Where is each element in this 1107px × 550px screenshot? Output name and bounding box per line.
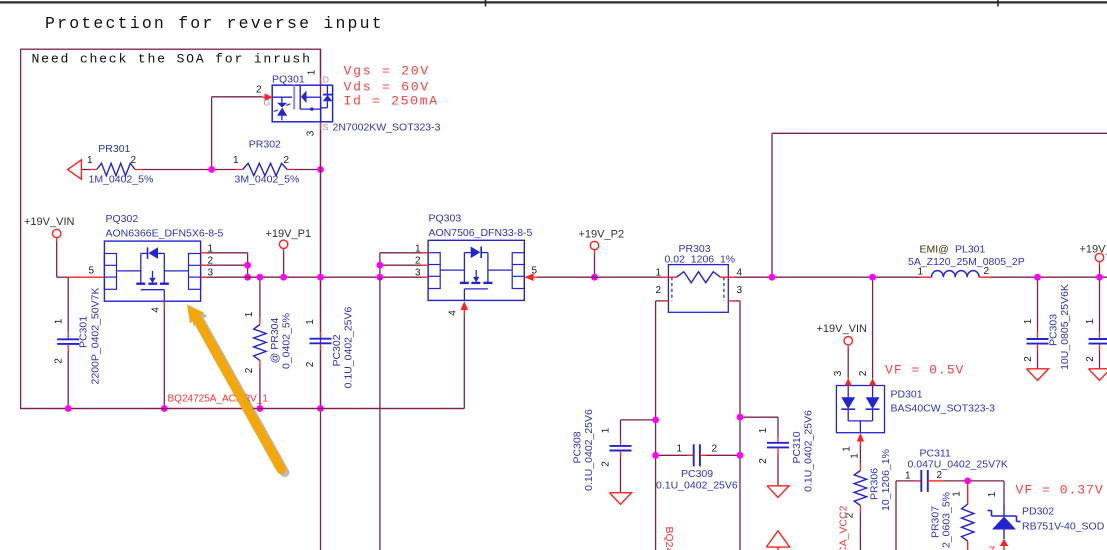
- ground right edge: [1089, 369, 1107, 381]
- svg-text:3: 3: [306, 130, 317, 136]
- svg-text:PC302: PC302: [331, 334, 343, 366]
- wire PQ302 pin3 to rail: [201, 276, 207, 278]
- svg-text:10U_0805_25V6K: 10U_0805_25V6K: [1059, 284, 1071, 370]
- svg-text:1M_0402_5%: 1M_0402_5%: [89, 174, 154, 186]
- svg-text:0.1U_0402_25V6: 0.1U_0402_25V6: [583, 409, 595, 491]
- svg-text:0.1U_0402_25V6: 0.1U_0402_25V6: [656, 480, 738, 492]
- svg-text:1: 1: [1023, 318, 1034, 324]
- resistor PR302: [243, 163, 288, 175]
- diode PD301: [836, 378, 884, 432]
- svg-text:Vgs = 20V: Vgs = 20V: [344, 64, 431, 79]
- transistor PQ301: [263, 85, 333, 122]
- capacitor PC311: [920, 470, 922, 492]
- svg-text:3: 3: [833, 370, 844, 376]
- svg-text:1: 1: [601, 427, 612, 433]
- svg-text:G: G: [264, 98, 271, 108]
- wire junction to PR302: [212, 169, 236, 171]
- svg-text:VF = 0.37V: VF = 0.37V: [1016, 483, 1104, 498]
- resistor PR304: [259, 277, 261, 317]
- svg-text:5A_Z120_25M_0805_2P: 5A_Z120_25M_0805_2P: [908, 256, 1025, 268]
- PD301 pin1 arrow up: [857, 433, 864, 442]
- svg-text:PC308: PC308: [572, 431, 584, 463]
- capacitor PC308: [621, 419, 656, 421]
- svg-text:S: S: [323, 122, 329, 132]
- capacitor right edge: [1099, 277, 1101, 332]
- svg-text:1: 1: [307, 69, 318, 75]
- wire PQ303 pin4 down to bus corner: [463, 316, 465, 409]
- svg-text:0.02 1206 1%: 0.02 1206 1%: [665, 254, 736, 266]
- svg-text:3M_0402_5%: 3M_0402_5%: [235, 174, 300, 186]
- svg-text:PQ301: PQ301: [272, 74, 305, 86]
- svg-text:2N7002KW_SOT323-3: 2N7002KW_SOT323-3: [333, 122, 441, 134]
- svg-text:2: 2: [305, 361, 316, 367]
- svg-text:PC303: PC303: [1048, 314, 1060, 346]
- svg-text:+19V_: +19V_: [1080, 244, 1107, 256]
- ground PC303: [1027, 369, 1049, 381]
- wire to PQ302 pin5: [57, 276, 68, 278]
- svg-text:1: 1: [244, 311, 255, 317]
- resistor PR301: [97, 163, 135, 175]
- wire PQ301 source down: [320, 121, 322, 129]
- wire node down to main rail: [320, 170, 322, 278]
- sheet top border: [0, 1, 1107, 3]
- svg-text:PQ303: PQ303: [429, 213, 462, 225]
- net wire BQ24725A_ACDRV_1 bus: [21, 408, 465, 410]
- inductor PL301: [920, 276, 932, 278]
- svg-text:2: 2: [256, 85, 262, 96]
- svg-text:1: 1: [1085, 318, 1096, 324]
- svg-text:PD302: PD302: [1022, 506, 1054, 518]
- wire PQ303 pins12 tie: [422, 252, 428, 254]
- svg-text:PD301: PD301: [891, 389, 923, 401]
- svg-text:+19V_P2: +19V_P2: [579, 228, 625, 240]
- svg-text:BQ24725A_ACDRV_1: BQ24725A_ACDRV_1: [168, 394, 269, 405]
- off-page connector left arrow: [68, 160, 82, 180]
- svg-text:AON6366E_DFN5X6-8-5: AON6366E_DFN5X6-8-5: [106, 228, 224, 240]
- transistor PQ302: [104, 241, 200, 301]
- svg-text:BAS40CW_SOT323-3: BAS40CW_SOT323-3: [891, 403, 996, 415]
- svg-text:PC310: PC310: [791, 431, 803, 463]
- svg-text:1: 1: [918, 267, 924, 278]
- svg-text:D: D: [323, 74, 329, 84]
- transistor PQ303: [428, 240, 524, 300]
- svg-text:2: 2: [984, 266, 990, 277]
- svg-text:PC309: PC309: [681, 468, 713, 480]
- wire PQ302 pins123 tie: [201, 252, 207, 254]
- svg-text:1: 1: [758, 427, 769, 433]
- capacitor PC302: [310, 338, 332, 340]
- wire: gate riser to PQ301: [211, 97, 213, 170]
- wire PR301 to junction: [135, 169, 142, 171]
- svg-text:0.1U_0402_25V6: 0.1U_0402_25V6: [803, 410, 815, 492]
- PD302 pin1 arrow up: [1000, 539, 1008, 546]
- svg-text:+19V_VIN: +19V_VIN: [817, 323, 868, 335]
- svg-text:2: 2: [54, 358, 65, 364]
- svg-text:4: 4: [448, 310, 459, 316]
- svg-text:PC301: PC301: [78, 316, 90, 348]
- PR303 pin2 wire down: [662, 300, 668, 302]
- svg-text:1: 1: [87, 155, 93, 166]
- svg-text:2: 2: [1023, 356, 1034, 362]
- wire PQ301 drain up to box top: [320, 49, 322, 77]
- svg-text:1: 1: [677, 444, 683, 455]
- svg-text:4: 4: [151, 307, 162, 313]
- svg-text:2: 2: [284, 155, 290, 166]
- svg-text:RB751V-40_SOD: RB751V-40_SOD: [1022, 521, 1105, 533]
- svg-text:1: 1: [656, 268, 662, 279]
- svg-text:AON7506_DFN33-8-5: AON7506_DFN33-8-5: [429, 227, 533, 239]
- svg-text:2: 2: [937, 470, 943, 481]
- wire: off-page arrow to PR301: [81, 169, 90, 171]
- wire PR302 to box edge node: [287, 169, 294, 171]
- resistor PR306: [859, 446, 861, 464]
- svg-text:+19V_P1: +19V_P1: [266, 228, 312, 240]
- svg-text:2: 2: [601, 461, 612, 467]
- wire PQ303 pin3 red stub: [422, 276, 428, 278]
- svg-text:Z: Z: [989, 545, 996, 550]
- svg-text:Need check the SOA for inrush: Need check the SOA for inrush: [32, 52, 312, 67]
- svg-text:1: 1: [842, 446, 853, 452]
- annotation arrow shadow: [190, 308, 284, 473]
- svg-text:2: 2: [131, 155, 137, 166]
- svg-text:BQ24725A: BQ24725A: [663, 527, 675, 550]
- PR303 pin4 wire: [728, 276, 734, 278]
- capacitor PC303: [1037, 277, 1039, 332]
- wire +19V_P1 node down offsheet: [379, 277, 381, 550]
- svg-text:2: 2: [656, 285, 662, 296]
- svg-text:@ PR304: @ PR304: [269, 318, 281, 364]
- svg-text:PR301: PR301: [98, 143, 130, 155]
- svg-text:10_1206_1%: 10_1206_1%: [880, 449, 892, 511]
- ground PC308: [610, 493, 632, 505]
- svg-text:1: 1: [952, 491, 963, 497]
- power symbol up-arrow bottom: [766, 531, 789, 547]
- svg-text:Vds = 60V: Vds = 60V: [344, 80, 431, 95]
- svg-text:1: 1: [305, 319, 316, 325]
- svg-text:1: 1: [54, 318, 65, 324]
- junction dot PR302/node: [317, 166, 324, 173]
- svg-text:EMI@: EMI@: [920, 244, 949, 256]
- wire riser to top right rail: [771, 133, 773, 277]
- svg-text:0_0402_5%: 0_0402_5%: [281, 313, 293, 369]
- svg-text:VF = 0.5V: VF = 0.5V: [885, 363, 964, 378]
- svg-text:2200P_0402_50V7K: 2200P_0402_50V7K: [90, 288, 102, 385]
- PQ303 pin5 red arrow: [524, 273, 533, 281]
- PR303 pin3 wire down: [728, 300, 734, 302]
- wire PQ303 pin5 to PR303: [537, 276, 662, 278]
- wire PD301 pin2 from rail: [872, 277, 874, 378]
- svg-text:1: 1: [987, 491, 998, 497]
- wire PQ302 pin4 down to bus: [163, 301, 165, 308]
- capacitor PC310: [740, 416, 778, 418]
- annotation arrow: [187, 305, 281, 470]
- svg-text:2: 2: [1085, 356, 1096, 362]
- svg-text:0.047U_0402_25V7K: 0.047U_0402_25V7K: [908, 459, 1008, 471]
- svg-text:PQ302: PQ302: [106, 213, 139, 225]
- svg-text:1: 1: [850, 453, 861, 459]
- capacitor PC309: [656, 454, 687, 456]
- wire PC311 row: [895, 481, 897, 550]
- svg-text:Protection for reverse input: Protection for reverse input: [45, 14, 384, 33]
- svg-text:2: 2: [858, 370, 869, 376]
- svg-text:2: 2: [712, 444, 718, 455]
- ground PC310: [767, 486, 789, 498]
- PQ303 pin4 red arrow: [461, 301, 469, 310]
- resistor PR307: [967, 481, 969, 504]
- diode PD302: [1003, 481, 1005, 505]
- svg-text:3: 3: [737, 285, 743, 296]
- svg-text:ACA_VCC2: ACA_VCC2: [838, 505, 850, 550]
- junction dot PR301/PR302: [208, 166, 215, 173]
- wire PC302 branch / down offsheet: [320, 277, 322, 332]
- svg-text:PL301: PL301: [955, 244, 986, 256]
- svg-text:1: 1: [905, 471, 911, 482]
- wire +19V_VIN down: [56, 242, 58, 278]
- svg-text:Id = 250mA: Id = 250mA: [344, 94, 439, 109]
- svg-text:PR306: PR306: [869, 468, 881, 500]
- svg-text:2: 2: [244, 367, 255, 373]
- annotation box: Need check the SOA for inrush: [21, 49, 321, 408]
- svg-text:2: 2: [758, 458, 769, 464]
- capacitor PC301 branch: [67, 277, 69, 332]
- svg-text:+19V_VIN: +19V_VIN: [24, 216, 75, 228]
- svg-text:0.1U_0402_25V6: 0.1U_0402_25V6: [343, 306, 355, 388]
- sense resistor PR303: [668, 265, 728, 313]
- svg-text:1: 1: [233, 155, 239, 166]
- svg-text:2_0603_5%: 2_0603_5%: [941, 492, 953, 548]
- svg-text:PR302: PR302: [249, 139, 281, 151]
- svg-text:5: 5: [89, 266, 95, 277]
